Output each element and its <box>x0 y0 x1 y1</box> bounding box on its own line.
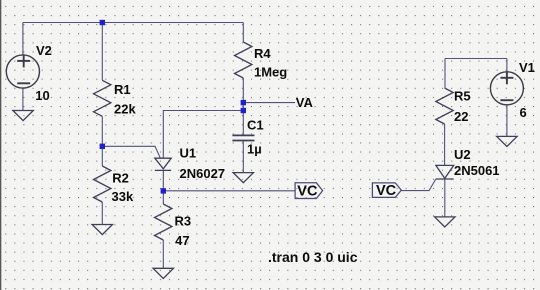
wire R4 bottom to C1 <box>242 78 244 135</box>
wire R2 top lead <box>101 146 103 166</box>
wire V2 top lead <box>22 23 24 56</box>
wire right top rail <box>445 58 507 60</box>
ground C1 <box>233 173 253 183</box>
svg-text:R1: R1 <box>114 82 131 97</box>
resistor R3 <box>155 204 172 240</box>
wire U2 gate to VC flag <box>401 179 436 191</box>
svg-text:R3: R3 <box>175 214 192 229</box>
wire U2 cathode lead <box>444 179 446 217</box>
svg-text:R4: R4 <box>254 46 271 61</box>
window left edge <box>0 0 1 290</box>
svg-text:U1: U1 <box>180 146 197 161</box>
svg-text:2N6027: 2N6027 <box>180 166 226 181</box>
wire VC stub left <box>163 190 295 192</box>
capacitor C1 <box>232 135 254 140</box>
svg-text:1Meg: 1Meg <box>254 65 287 80</box>
ground R3 <box>153 268 173 278</box>
wire R1 top lead <box>101 23 103 81</box>
svg-text:6: 6 <box>520 105 527 120</box>
svg-text:1µ: 1µ <box>247 142 262 157</box>
wire R2 bottom lead <box>101 202 103 225</box>
wire V2 bottom lead <box>22 88 24 110</box>
resistor R2 <box>94 166 111 202</box>
flag VC right <box>372 183 401 198</box>
svg-text:VC: VC <box>376 183 397 199</box>
resistor R1 <box>94 80 111 116</box>
wire C1 bottom lead <box>242 141 244 173</box>
svg-text:2N5061: 2N5061 <box>454 163 500 178</box>
svg-text:22k: 22k <box>114 101 136 116</box>
ground V1 <box>497 136 517 146</box>
svg-text:R5: R5 <box>454 89 471 104</box>
ground V2 <box>13 111 33 121</box>
voltage source V1 <box>490 72 523 105</box>
transistor U2 (SCR) <box>436 165 454 178</box>
ground R2 <box>92 225 112 235</box>
svg-text:22: 22 <box>454 109 468 124</box>
flag VC left <box>295 183 323 199</box>
wire U1 anode from VA node <box>163 111 243 159</box>
node junction cathode/R3/VC <box>161 188 166 193</box>
wire U1 gate from divider <box>102 146 160 158</box>
transistor U1 (PUT) <box>155 158 171 169</box>
wire R5 top lead <box>444 59 446 89</box>
node junction top rail / R1 <box>100 20 105 25</box>
svg-text:VA: VA <box>296 95 314 110</box>
svg-text:47: 47 <box>175 233 189 248</box>
svg-text:R2: R2 <box>112 171 129 186</box>
node junction anode <box>241 108 246 113</box>
svg-text:V2: V2 <box>36 43 52 58</box>
node junction VA <box>241 100 246 105</box>
wire node VA stub <box>243 102 295 104</box>
wire U1 cathode lead <box>162 170 164 191</box>
resistor R5 <box>436 88 453 124</box>
svg-text:C1: C1 <box>247 118 264 133</box>
wire V1 bottom lead <box>506 105 508 137</box>
wire R5 bottom to U2 anode <box>444 124 446 165</box>
wire R1 bottom lead <box>101 116 103 146</box>
ground U2 <box>435 217 455 227</box>
svg-text:VC: VC <box>297 184 318 200</box>
voltage source V2 <box>6 55 39 88</box>
svg-text:33k: 33k <box>112 189 134 204</box>
wire V1 top lead <box>506 59 508 72</box>
wire R3 top lead <box>162 191 164 204</box>
wire R4 top lead <box>242 23 244 43</box>
svg-text:.tran 0 3 0 uic: .tran 0 3 0 uic <box>268 249 358 265</box>
svg-text:V1: V1 <box>519 60 535 75</box>
resistor R4 <box>235 42 252 78</box>
svg-text:U2: U2 <box>454 147 471 162</box>
wire top rail <box>23 22 243 24</box>
wire R3 bottom lead <box>162 240 164 268</box>
svg-text:10: 10 <box>35 88 49 103</box>
node junction R1/R2/gate <box>100 144 105 149</box>
